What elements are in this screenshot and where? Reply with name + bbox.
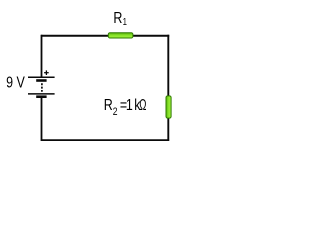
battery B1 short thick plate (top cell -) <box>36 79 46 82</box>
wire left upper (top corner to battery +) <box>41 35 43 77</box>
svg-text:Ω: Ω <box>139 95 146 113</box>
battery B1 short thick plate (bottom cell -) <box>36 95 46 98</box>
resistor R1 body <box>108 33 133 38</box>
svg-text:R: R <box>104 97 113 115</box>
wire left lower (battery - to bottom corner) <box>41 97 43 141</box>
battery B1 long plate (top cell +) <box>28 76 55 78</box>
resistor R2 body <box>166 96 171 118</box>
svg-text:1: 1 <box>126 97 133 115</box>
wire right <box>167 35 169 141</box>
svg-text:2: 2 <box>113 106 118 118</box>
wire top <box>41 35 169 37</box>
battery B1 dotted cell continuation <box>41 83 43 92</box>
battery B1 long plate (bottom cell +) <box>28 93 55 95</box>
wire bottom <box>41 139 169 141</box>
svg-text:9 V: 9 V <box>6 74 25 92</box>
svg-text:1: 1 <box>123 16 127 27</box>
battery B1 plus sign <box>44 70 49 75</box>
svg-text:R: R <box>113 10 122 28</box>
